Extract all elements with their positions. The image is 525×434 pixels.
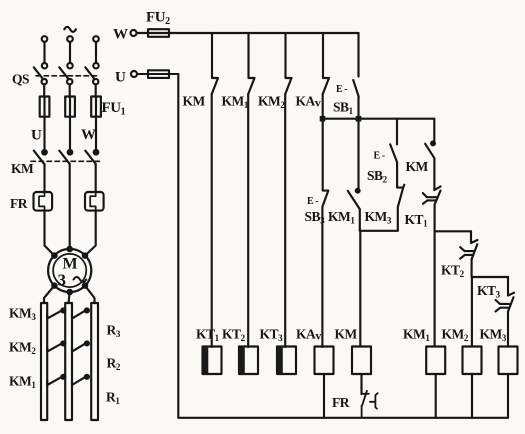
contact KM (NO, top row) <box>212 33 218 94</box>
fuse FU1 pole 2 <box>65 97 75 117</box>
top rail <box>169 32 359 34</box>
svg-text:KM2: KM2 <box>258 94 285 111</box>
coil KAv <box>315 347 334 375</box>
wire KAv contact to node <box>322 94 324 119</box>
wire QS to fuse FU1 pole 1 <box>43 84 45 152</box>
bottom rail <box>178 417 508 419</box>
wire KM2 contact to KT3 coil <box>284 94 286 347</box>
resistor box phase 2 <box>65 303 72 420</box>
wire QS to fuse FU1 pole 3 <box>95 84 97 152</box>
time relay contact KT1 (delay close NO) <box>423 186 441 204</box>
svg-text:KM: KM <box>11 161 34 176</box>
svg-text:KT3: KT3 <box>477 283 501 300</box>
KM main contact pole 3 <box>94 150 99 155</box>
wire motor to resistor box 1 <box>44 286 54 303</box>
wire terminal L1 to QS <box>43 42 45 63</box>
svg-text:KM2: KM2 <box>442 327 469 344</box>
wire FR to motor right <box>85 211 96 256</box>
supply terminal L1 <box>42 36 48 42</box>
svg-text:KM1: KM1 <box>222 94 249 111</box>
branch KT1 to KT2 column <box>435 230 471 232</box>
svg-text:KM: KM <box>183 94 206 109</box>
contact KM2 shorting blade left <box>47 343 63 352</box>
coil KM3 <box>499 347 518 375</box>
contact KM2 (NO, top row) <box>285 33 291 94</box>
fuse FU1 pole 1 <box>40 97 50 117</box>
wire terminal L3 to QS <box>95 42 97 63</box>
contact KM3 shorting blade right <box>72 310 87 319</box>
switch QS pole 2 <box>67 63 72 68</box>
svg-text:KAv: KAv <box>296 327 321 343</box>
coil KT2 <box>239 347 258 375</box>
branch KT2 to KT3 column <box>472 276 508 278</box>
contact KAv (NO, top row) <box>323 33 329 94</box>
svg-text:E -: E - <box>307 196 318 207</box>
thermal relay FR heater pole 1 <box>34 192 53 211</box>
node dot SB1 column <box>356 116 362 122</box>
node dot KAv column <box>320 116 326 122</box>
QS mechanical link (dashed) <box>36 75 100 77</box>
node line after SB1 <box>323 118 435 120</box>
svg-text:FR: FR <box>332 395 350 410</box>
motor terminal dots <box>52 253 56 257</box>
svg-text:QS: QS <box>12 72 29 87</box>
svg-text:SB1: SB1 <box>333 100 354 117</box>
svg-text:KM1: KM1 <box>328 209 355 226</box>
contact KM3 shorting blade left <box>47 310 63 319</box>
svg-text:KM: KM <box>335 327 358 342</box>
svg-text:KM2: KM2 <box>9 340 36 357</box>
wire KM to FR pole 1 <box>43 164 45 192</box>
contact KM1 shorting blade left <box>47 376 63 385</box>
svg-text:FU1: FU1 <box>102 100 126 118</box>
fuse FU1 pole 3 <box>91 97 101 117</box>
fuse (U line) <box>148 70 169 78</box>
wire KM3 branch join <box>360 230 398 232</box>
contact KM2 shorting blade right <box>72 343 87 352</box>
fuse FU2 <box>148 29 169 37</box>
terminal W <box>131 30 137 36</box>
supply terminal L3 <box>93 36 99 42</box>
contact KM1 (mid, self-hold) <box>348 119 360 231</box>
wire motor to resistor box 2 <box>69 292 70 303</box>
wire KM pole 2 down <box>69 164 71 249</box>
svg-text:U: U <box>31 128 42 144</box>
svg-text:SB2: SB2 <box>367 168 388 185</box>
KM mechanical link (dashed) <box>31 160 101 162</box>
contact KM (right, self-hold) <box>425 119 434 190</box>
svg-text:KT1: KT1 <box>405 212 429 229</box>
svg-text:W: W <box>81 127 96 143</box>
wire KAv coil to rail <box>323 374 325 418</box>
coil KM2 <box>463 347 482 375</box>
wire motor to resistor box 3 <box>85 286 95 303</box>
svg-text:KT2: KT2 <box>222 327 246 344</box>
contact KM1 shorting blade right <box>72 376 87 385</box>
pushbutton SB3 <box>322 119 328 347</box>
wire W to top rail <box>137 32 170 34</box>
supply terminal L2 <box>67 36 73 42</box>
switch QS pole 1 <box>42 63 47 68</box>
pushbutton SB2 <box>390 119 397 163</box>
coil KM <box>352 347 371 375</box>
terminal U <box>131 71 137 77</box>
svg-text:KT1: KT1 <box>196 327 220 344</box>
svg-text:KM: KM <box>406 159 429 174</box>
wire KM to FR pole 3 <box>95 164 97 192</box>
three-phase supply tilde <box>64 27 76 32</box>
svg-text:KM3: KM3 <box>480 327 507 344</box>
wire U line down (left rail) <box>177 74 179 418</box>
wire KT3 to KM3 coil <box>507 312 509 418</box>
wire join to KM coil <box>359 231 361 347</box>
contact KM3 (mid) <box>397 162 404 231</box>
svg-text:KM1: KM1 <box>403 327 430 344</box>
time relay contact KT3 <box>496 277 514 312</box>
switch QS pole 3 <box>93 63 98 68</box>
svg-text:KT2: KT2 <box>441 263 465 280</box>
KM main contact pole 2 <box>68 150 73 155</box>
svg-text:R1: R1 <box>106 390 120 407</box>
wire KM contact to KT1 coil <box>211 94 213 347</box>
svg-text:E -: E - <box>374 151 385 162</box>
pushbutton SB1 <box>353 33 359 119</box>
svg-text:KT3: KT3 <box>260 327 284 344</box>
thermal relay FR break contact <box>362 391 378 418</box>
svg-text:R2: R2 <box>107 356 121 373</box>
resistor box phase 1 <box>41 303 47 420</box>
wire KM coil to FR contact <box>360 374 362 394</box>
coil KT3 <box>277 347 296 375</box>
coil KT1 <box>203 347 222 375</box>
wire QS to fuse FU1 pole 2 <box>69 84 71 152</box>
motor M 3~ <box>48 249 91 292</box>
svg-text:KM1: KM1 <box>9 374 36 391</box>
KM main contact pole 1 <box>42 150 47 155</box>
svg-text:KM3: KM3 <box>9 306 36 323</box>
wire FR to motor left <box>45 211 55 256</box>
wire KM1 contact to KT2 coil <box>247 94 249 347</box>
svg-text:R3: R3 <box>107 323 121 340</box>
svg-text:FU2: FU2 <box>146 10 170 28</box>
svg-text:FR: FR <box>10 196 28 211</box>
svg-text:KM3: KM3 <box>365 209 392 226</box>
svg-text:3: 3 <box>58 271 66 290</box>
svg-text:E -: E - <box>336 84 347 95</box>
resistor box phase 3 <box>91 303 98 420</box>
time relay contact KT2 <box>460 231 477 259</box>
wire KT2 to KM2 coil <box>471 259 474 418</box>
thermal relay FR heater pole 3 <box>85 192 104 211</box>
wire KT1 to KM1 coil <box>435 205 436 418</box>
svg-text:U: U <box>115 70 126 86</box>
contact KM1 (NO, top row) <box>248 33 254 94</box>
coil KM1 <box>426 347 445 375</box>
wire terminal L2 to QS <box>69 42 71 63</box>
svg-text:KAv: KAv <box>296 94 321 110</box>
svg-text:W: W <box>113 27 128 43</box>
